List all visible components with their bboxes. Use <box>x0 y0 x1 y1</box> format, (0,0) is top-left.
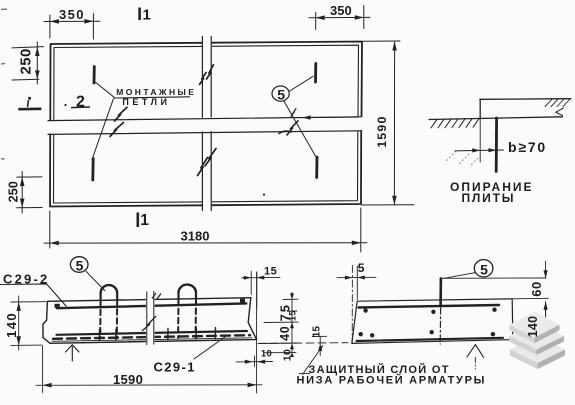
svg-text:С29-2: С29-2 <box>3 271 49 286</box>
horizontal break band lines <box>48 117 361 135</box>
label mounting loops text <box>115 87 196 107</box>
dimension 140 left of section <box>11 296 46 350</box>
extension line below slab end <box>479 119 481 162</box>
dimension 250 top-left vertical <box>12 42 44 84</box>
svg-text:250: 250 <box>7 181 21 202</box>
stirrup loop right <box>178 285 196 294</box>
svg-text:5: 5 <box>277 87 285 103</box>
mounting loop top-right <box>314 64 317 83</box>
faint hatch speckles <box>446 151 478 166</box>
section mark 1 top <box>140 7 151 24</box>
leader horizontal line <box>441 277 546 279</box>
svg-text:1590: 1590 <box>375 115 389 147</box>
leader from text to bottom-left loop <box>93 99 114 158</box>
rebar dots section 2-2 <box>359 308 497 338</box>
svg-text:60: 60 <box>529 281 544 296</box>
hatching on wall <box>431 119 479 128</box>
watermark logo stack of slabs <box>509 312 565 369</box>
logo slab bottom <box>510 336 565 363</box>
svg-text:250: 250 <box>18 48 35 74</box>
slab end vertical <box>479 99 481 118</box>
dimension 15 protective layer <box>312 336 326 355</box>
arrow on band pointing left <box>303 115 358 119</box>
leader from text to top-left loop <box>96 83 115 99</box>
beam outline section 1-1 <box>43 298 256 344</box>
svg-text:ПЛИТЫ: ПЛИТЫ <box>462 191 516 205</box>
bottom rebar <box>357 338 504 341</box>
section mark 1 bottom <box>138 212 150 229</box>
mounting loop bottom-right <box>315 157 318 178</box>
rebar 5 vertical bar <box>439 278 442 306</box>
logo slab top <box>510 312 560 338</box>
svg-text:40: 40 <box>278 326 292 341</box>
svg-text:350: 350 <box>330 3 352 18</box>
transverse bar ticks <box>99 328 215 341</box>
leader from circle 5 to top-right loop <box>289 76 313 91</box>
callout circle 5 plan <box>272 86 289 103</box>
dimension 5 top-left <box>351 266 353 344</box>
arrow under beam <box>66 345 80 361</box>
circle connector <box>444 273 476 279</box>
bottom level dashed line <box>258 342 348 345</box>
svg-text:b≥70: b≥70 <box>508 139 547 155</box>
dimension 10 horizontal below section <box>236 356 273 366</box>
vertical break band lines <box>202 37 211 211</box>
dimension 350 top-left <box>44 14 100 40</box>
scan noise marks <box>1 9 7 159</box>
svg-text:140: 140 <box>4 312 19 338</box>
dimension 1590 right of plan <box>362 41 415 205</box>
right dimension chain of section 1-1 <box>259 293 299 357</box>
callout circle 5 section 2-2 <box>474 260 493 278</box>
bottom rebar mesh C29-1 <box>57 331 248 335</box>
svg-text:15: 15 <box>311 326 322 338</box>
break zigzag marks on vertical band top <box>200 65 214 85</box>
logo slab middle <box>509 323 564 350</box>
svg-text:15: 15 <box>264 266 277 278</box>
dimension 140 line (mostly behind logo) <box>545 302 547 340</box>
svg-text:5: 5 <box>480 261 488 277</box>
slab top line <box>480 98 571 101</box>
svg-text:5: 5 <box>76 258 84 274</box>
wall face thick line <box>495 118 498 172</box>
svg-text:МОНТАЖНЫЕ: МОНТАЖНЫЕ <box>116 87 196 97</box>
svg-text:ПЕТЛИ: ПЕТЛИ <box>122 97 170 107</box>
tick on leader at band crossing <box>291 109 296 117</box>
leader from circle 5 to bottom-right loop <box>284 101 318 159</box>
beam outline section 2-2 <box>352 299 513 344</box>
svg-text:10: 10 <box>261 349 272 360</box>
arrow under section 2-2 <box>467 345 484 358</box>
leader to protective layer text <box>299 346 323 375</box>
top edge extension to right <box>512 298 548 339</box>
mounting loop bottom-left <box>91 159 94 181</box>
break zigzag marks on horizontal band right <box>279 121 298 135</box>
dimension 250 bottom-left vertical <box>17 172 43 214</box>
label 2 <box>64 93 90 110</box>
dimension 60 <box>545 261 547 315</box>
wall top line <box>429 117 563 120</box>
callout circle 5 section <box>86 271 105 290</box>
svg-text:140: 140 <box>526 316 540 338</box>
svg-text:1590: 1590 <box>113 372 143 387</box>
svg-text:1: 1 <box>140 212 149 229</box>
break zigzag marks on vertical band bottom <box>198 149 217 176</box>
svg-text:С29-1: С29-1 <box>154 360 196 375</box>
label C29-2 with leader <box>0 284 66 306</box>
dimension 15 top-right of section <box>242 271 281 308</box>
stirrup loop left <box>101 285 118 294</box>
dimension 3180 bottom of plan <box>44 208 367 252</box>
svg-text:5: 5 <box>358 261 365 275</box>
dimension 350 top-right <box>309 6 370 30</box>
svg-text:НИЗА РАБОЧЕЙ АРМАТУРЫ: НИЗА РАБОЧЕЙ АРМАТУРЫ <box>297 374 487 387</box>
break in beam middle <box>142 291 161 345</box>
plan outer border <box>50 42 362 207</box>
mounting loop top-left <box>93 67 96 84</box>
plan inner border <box>54 45 359 203</box>
svg-text:3180: 3180 <box>181 229 210 244</box>
top rebar <box>359 305 500 308</box>
dimension 1590 below section <box>36 272 262 393</box>
svg-text:1: 1 <box>143 7 151 24</box>
small break arrow on slab <box>556 108 564 116</box>
svg-text:10: 10 <box>282 349 294 361</box>
top rebar mesh C29-2 <box>57 303 247 308</box>
break zigzag marks on horizontal band left <box>110 107 127 136</box>
section labels/texts <box>3 271 49 286</box>
rebar end dots <box>55 299 246 308</box>
label C29-1 leader <box>194 337 226 360</box>
axis mark left <box>18 97 41 109</box>
svg-text:350: 350 <box>59 7 85 22</box>
svg-text:15: 15 <box>287 310 297 321</box>
hatch at cut end of slab <box>545 99 570 107</box>
dimension b>=70 <box>455 149 504 152</box>
